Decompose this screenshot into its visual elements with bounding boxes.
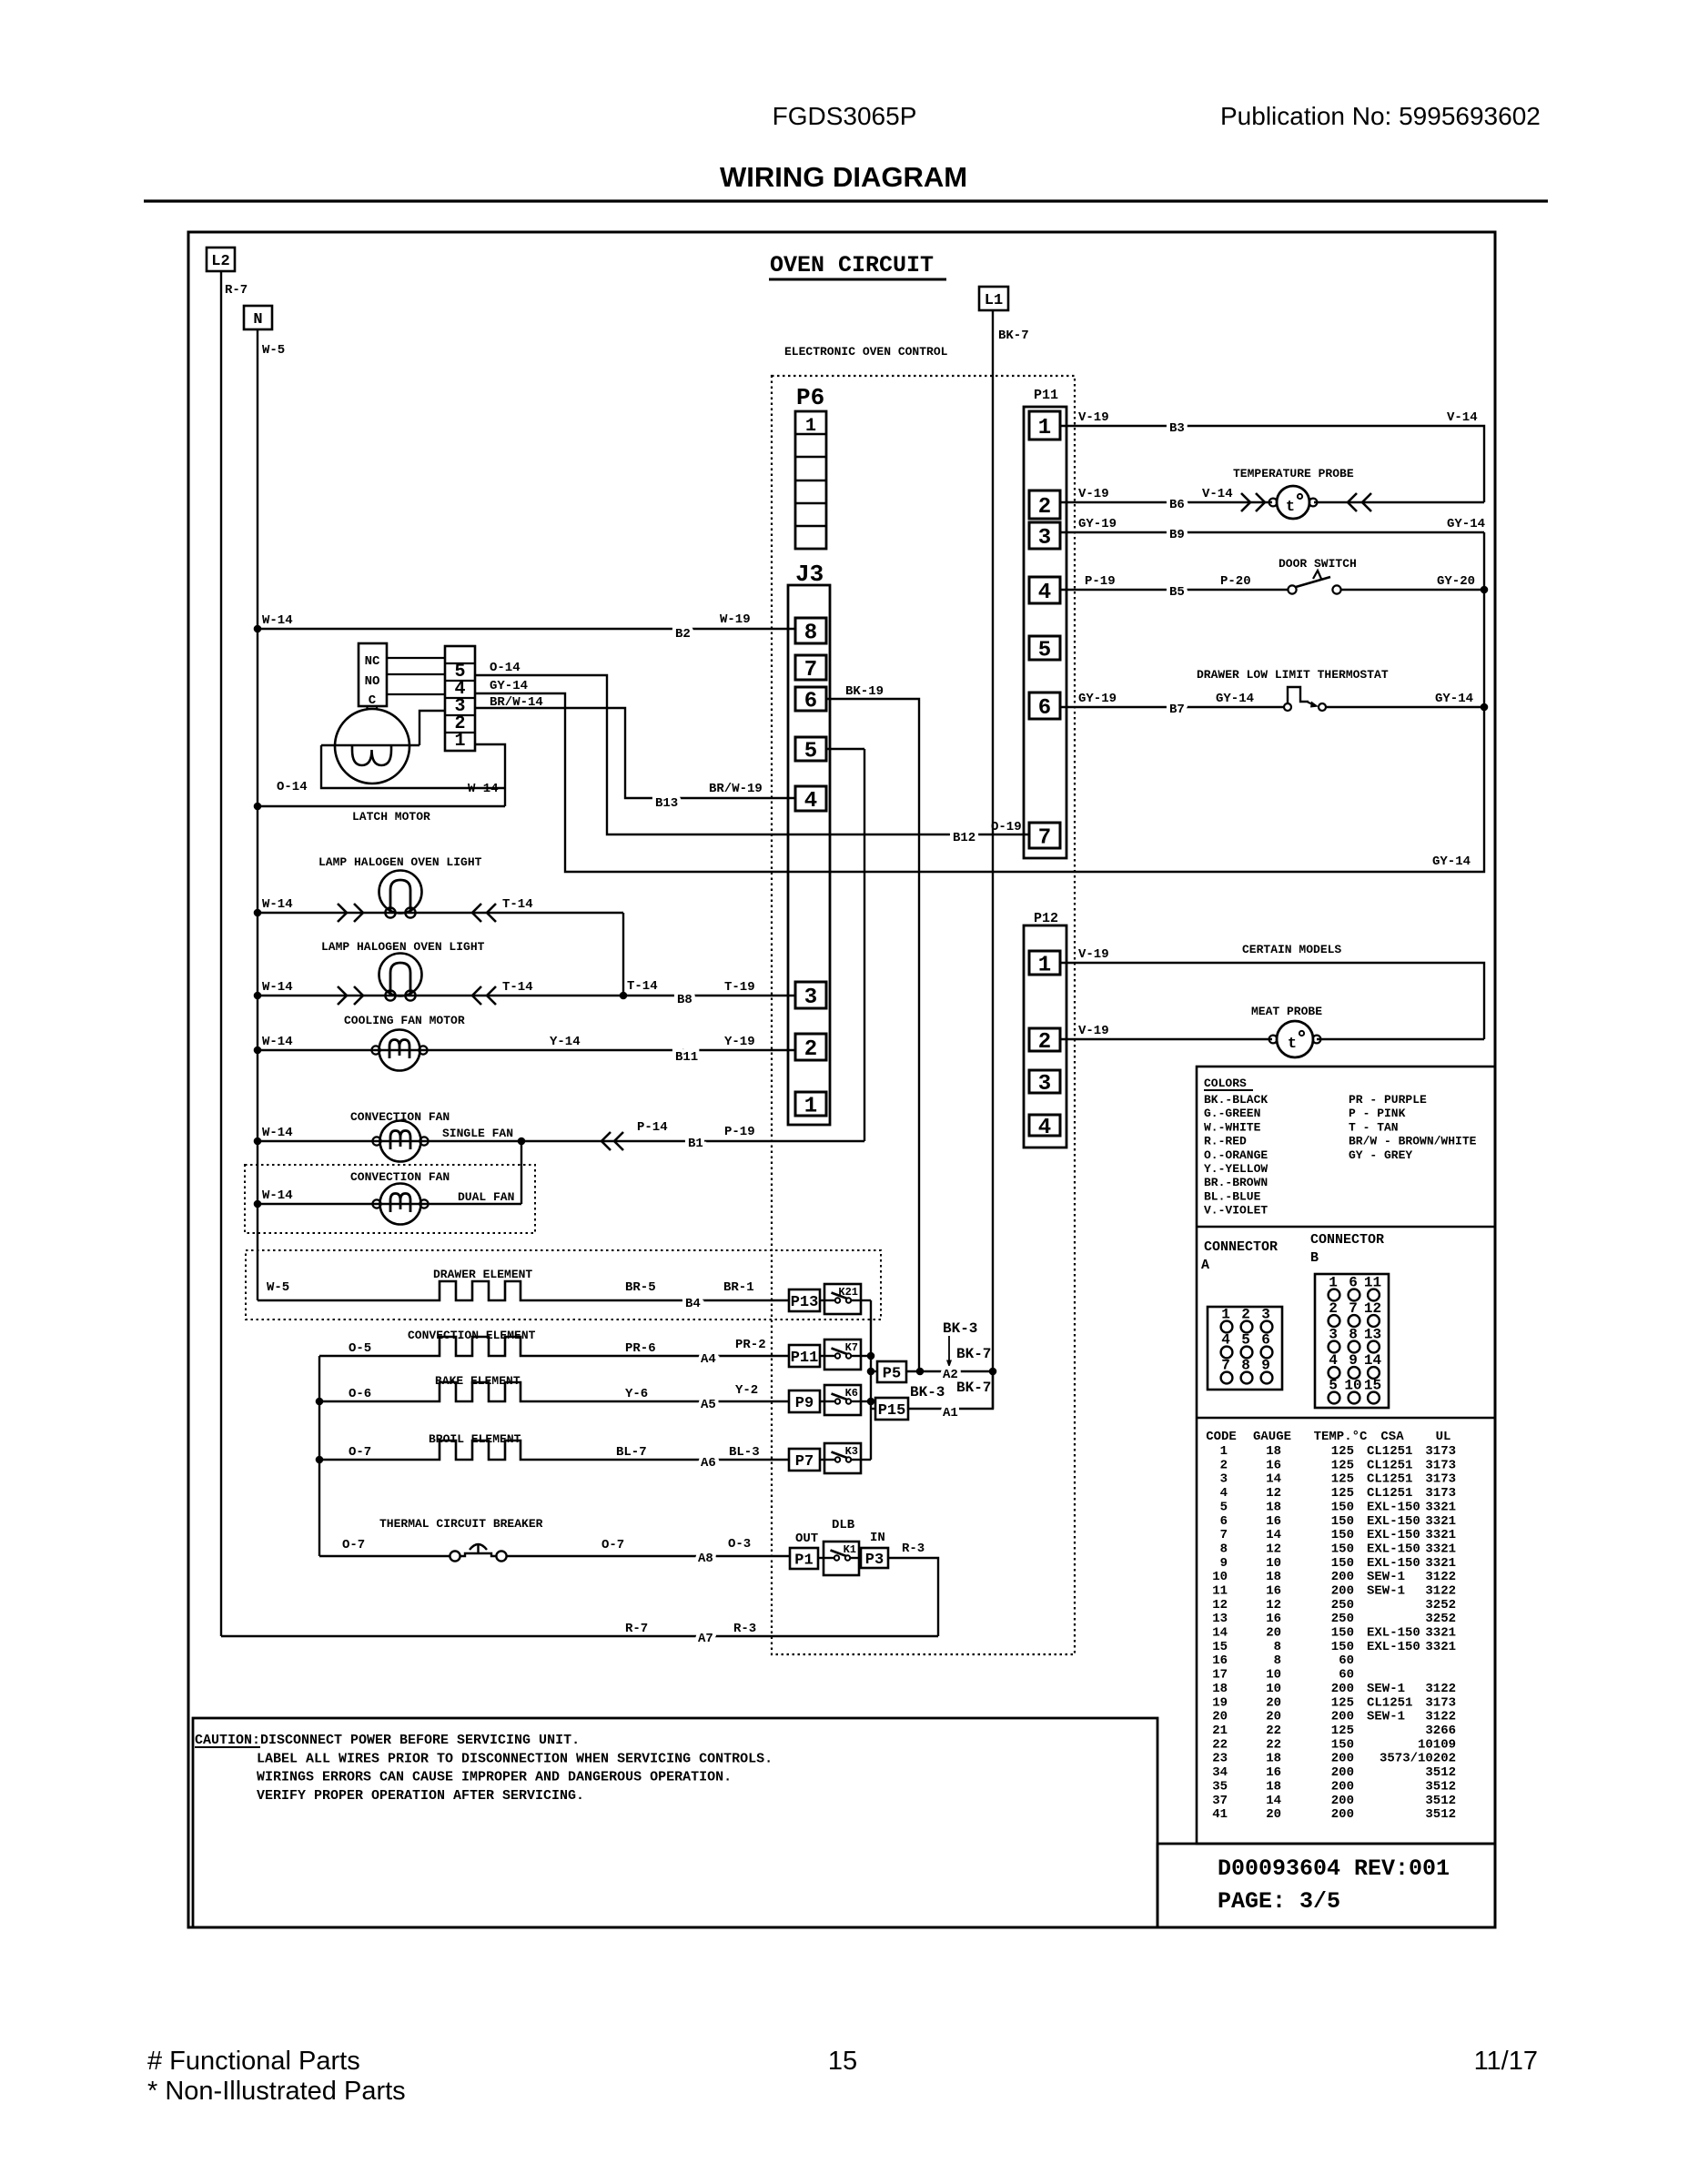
svg-text:NC: NC (365, 654, 380, 669)
svg-text:LABEL ALL WIRES PRIOR TO DISCO: LABEL ALL WIRES PRIOR TO DISCONNECTION W… (257, 1751, 773, 1766)
svg-text:150: 150 (1331, 1500, 1354, 1514)
J3 pin 7 (795, 655, 826, 682)
svg-text:41: 41 (1212, 1807, 1228, 1822)
svg-text:A7: A7 (698, 1632, 713, 1646)
svg-text:16: 16 (1266, 1765, 1281, 1780)
wire J3 pin 5 stub (826, 748, 864, 750)
relay K21 (824, 1284, 861, 1314)
svg-text:BR.-BROWN: BR.-BROWN (1204, 1176, 1268, 1189)
svg-text:Y-14: Y-14 (550, 1035, 581, 1049)
svg-text:PAGE: 3/5: PAGE: 3/5 (1218, 1888, 1340, 1915)
svg-text:8: 8 (804, 622, 817, 646)
svg-text:12: 12 (1266, 1486, 1281, 1501)
title underline (769, 278, 946, 281)
svg-text:14: 14 (1266, 1472, 1281, 1487)
svg-text:B13: B13 (655, 796, 678, 811)
door switch symbol (1288, 571, 1340, 594)
svg-text:O-19: O-19 (991, 820, 1022, 834)
svg-text:CL1251: CL1251 (1367, 1695, 1412, 1710)
drawer low limit thermostat symbol (1284, 687, 1326, 711)
connector P6 (795, 411, 826, 549)
svg-text:16: 16 (1212, 1653, 1228, 1668)
svg-text:t: t (1286, 499, 1295, 516)
svg-text:3512: 3512 (1425, 1807, 1456, 1822)
drawer element dashed box (246, 1250, 881, 1319)
svg-text:4: 4 (804, 789, 817, 814)
relay K6 (824, 1385, 861, 1415)
wire A1 BK-7 (908, 1371, 993, 1409)
latch motor stub left (366, 706, 368, 710)
main border (188, 232, 1495, 1927)
legend wire code table (1206, 1430, 1456, 1822)
svg-text:3173: 3173 (1425, 1444, 1456, 1459)
wire cooling fan / B11 to J3 pin 2 (258, 1049, 795, 1051)
latch relay switch box (359, 643, 387, 706)
svg-text:3512: 3512 (1425, 1779, 1456, 1794)
wire BR/W-14/B13 to J3 pin 4 (475, 708, 795, 798)
junction broil left (316, 1456, 324, 1464)
wire meat probe right (1317, 1038, 1484, 1040)
svg-text:A6: A6 (701, 1456, 716, 1471)
thermal circuit breaker symbol (450, 1544, 506, 1562)
svg-text:EXL-150: EXL-150 (1367, 1626, 1420, 1641)
svg-text:K1: K1 (844, 1543, 856, 1556)
node N (244, 306, 272, 329)
svg-text:EXL-150: EXL-150 (1367, 1528, 1420, 1542)
svg-text:O.-ORANGE: O.-ORANGE (1204, 1148, 1268, 1162)
svg-text:R.-RED: R.-RED (1204, 1135, 1247, 1148)
junction GY right door switch (1481, 586, 1489, 594)
relay K3 (824, 1443, 861, 1473)
svg-text:D00093604 REV:001: D00093604 REV:001 (1218, 1855, 1450, 1882)
svg-text:22: 22 (1212, 1737, 1228, 1752)
wire latch motor chord (321, 744, 419, 746)
svg-text:B11: B11 (675, 1050, 698, 1065)
caution box (193, 1718, 1157, 1927)
svg-text:EXL-150: EXL-150 (1367, 1514, 1420, 1529)
wire breaker right / A8 (507, 1555, 790, 1557)
svg-text:3: 3 (1220, 1472, 1228, 1487)
wire latch motor left loop (321, 745, 505, 788)
svg-text:125: 125 (1331, 1486, 1354, 1501)
svg-text:B5: B5 (1169, 585, 1185, 600)
svg-text:W-5: W-5 (267, 1280, 289, 1295)
svg-text:12: 12 (1266, 1542, 1281, 1557)
svg-text:125: 125 (1331, 1444, 1354, 1459)
wire B3 V-19/V-14 (1060, 426, 1484, 502)
svg-text:SEW-1: SEW-1 (1367, 1710, 1405, 1724)
J3 pin 5 (795, 737, 826, 764)
svg-text:150: 150 (1331, 1528, 1354, 1542)
connector P5 (877, 1361, 906, 1383)
wire P9 to K6 (820, 1400, 824, 1402)
wire O-14/B12 to P11 pin 7 (475, 675, 1029, 834)
svg-text:GY-14: GY-14 (1447, 517, 1485, 531)
temperature probe (1269, 486, 1318, 519)
svg-text:13: 13 (1212, 1612, 1228, 1626)
svg-text:3122: 3122 (1425, 1570, 1456, 1584)
svg-text:R-7: R-7 (625, 1622, 648, 1636)
svg-text:1: 1 (805, 416, 816, 437)
svg-text:20: 20 (1212, 1710, 1228, 1724)
svg-text:3252: 3252 (1425, 1612, 1456, 1626)
junction W-14 cooling fan (254, 1046, 262, 1055)
svg-text:GY-19: GY-19 (1078, 517, 1117, 531)
svg-text:10: 10 (1266, 1682, 1281, 1696)
svg-text:3321: 3321 (1425, 1500, 1456, 1514)
svg-text:18: 18 (1266, 1444, 1281, 1459)
svg-text:2: 2 (804, 1037, 817, 1062)
P11 pin 6 (1029, 693, 1060, 721)
cooling fan motor (371, 1030, 427, 1071)
svg-text:SEW-1: SEW-1 (1367, 1570, 1405, 1584)
svg-text:150: 150 (1331, 1542, 1354, 1557)
svg-text:2: 2 (1038, 1030, 1051, 1055)
svg-text:11/17: 11/17 (1474, 2047, 1538, 2076)
legend divider 1 (1197, 1226, 1495, 1228)
svg-text:10: 10 (1266, 1668, 1281, 1683)
J3 pin 4 (795, 786, 826, 814)
svg-text:B6: B6 (1169, 498, 1185, 512)
svg-text:CL1251: CL1251 (1367, 1486, 1412, 1501)
svg-text:A: A (1201, 1258, 1209, 1273)
lamp halogen oven light 1 (379, 871, 422, 918)
temp probe connector chevrons (1241, 493, 1250, 511)
svg-text:V-19: V-19 (1078, 487, 1109, 501)
svg-text:GY-14: GY-14 (1435, 692, 1473, 706)
svg-text:125: 125 (1331, 1695, 1354, 1710)
wire A2 BK-7 (906, 1370, 993, 1372)
svg-text:W-14: W-14 (262, 897, 293, 912)
legend CONNECTOR A (1201, 1239, 1282, 1390)
connector P12 outline (1024, 925, 1066, 1148)
svg-text:7: 7 (804, 658, 817, 682)
svg-text:CSA: CSA (1380, 1430, 1404, 1444)
svg-text:NO: NO (365, 674, 380, 689)
electronic oven control box (772, 376, 1075, 1654)
wire O-5/O-6/O-7 left riser (318, 1356, 320, 1556)
svg-text:T-14: T-14 (627, 979, 658, 994)
svg-text:T - TAN: T - TAN (1349, 1120, 1399, 1134)
svg-text:COOLING FAN MOTOR: COOLING FAN MOTOR (344, 1014, 465, 1027)
svg-text:CODE: CODE (1206, 1430, 1237, 1444)
wire R-7 vertical from L2 (220, 271, 222, 1636)
legend divider 2 (1197, 1417, 1495, 1420)
P12 pin 2 (1029, 1028, 1060, 1055)
svg-text:W-14: W-14 (262, 980, 293, 995)
svg-text:V-14: V-14 (1202, 487, 1233, 501)
svg-text:R-3: R-3 (733, 1622, 756, 1636)
wire NO to latch connector (387, 673, 445, 675)
svg-text:200: 200 (1331, 1584, 1354, 1599)
latch motor stub right (376, 706, 378, 710)
svg-text:10: 10 (1266, 1556, 1281, 1571)
latch motor connector column (445, 646, 475, 752)
svg-text:7: 7 (1220, 1528, 1228, 1542)
svg-text:CL1251: CL1251 (1367, 1458, 1412, 1472)
svg-text:3321: 3321 (1425, 1626, 1456, 1641)
svg-text:1: 1 (1038, 416, 1051, 440)
drawer element (258, 1281, 789, 1300)
convection element (319, 1337, 789, 1356)
svg-text:BR/W-19: BR/W-19 (709, 782, 763, 796)
svg-text:W-19: W-19 (720, 612, 751, 627)
svg-text:CONNECTOR: CONNECTOR (1204, 1239, 1278, 1255)
svg-text:200: 200 (1331, 1710, 1354, 1724)
J3 pin 3 (795, 982, 826, 1010)
J3 pin 1 (795, 1092, 826, 1119)
node L1 (979, 287, 1008, 310)
svg-text:K3: K3 (845, 1445, 858, 1458)
svg-text:R-7: R-7 (225, 283, 248, 298)
svg-text:BR/W - BROWN/WHITE: BR/W - BROWN/WHITE (1349, 1135, 1477, 1148)
latch motor winding (352, 745, 391, 765)
wire lamp 1 line (258, 912, 623, 914)
P12 pin 1 (1029, 951, 1060, 978)
wire NC to latch connector (387, 657, 445, 659)
wire latch cell1 to W-5 (475, 744, 505, 806)
connector P7 (789, 1449, 820, 1471)
svg-text:Publication No: 5995693602: Publication No: 5995693602 (1220, 102, 1541, 130)
svg-text:3266: 3266 (1425, 1724, 1456, 1738)
svg-text:# Functional Parts: # Functional Parts (147, 2047, 360, 2076)
svg-text:BK-7: BK-7 (956, 1346, 991, 1362)
svg-text:T-19: T-19 (724, 980, 755, 995)
svg-text:B8: B8 (677, 993, 692, 1007)
junction W-14 at N vertical (254, 625, 262, 633)
svg-text:34: 34 (1212, 1765, 1228, 1780)
connector P1 (790, 1548, 818, 1570)
latch motor circle (335, 709, 409, 784)
wire thermostat right GY-14 (1326, 706, 1484, 708)
svg-text:L2: L2 (211, 253, 229, 270)
svg-text:150: 150 (1331, 1626, 1354, 1641)
wire latch cell3 left (419, 711, 445, 745)
svg-text:P1: P1 (794, 1552, 813, 1570)
node L2 (207, 248, 235, 271)
svg-text:21: 21 (1212, 1724, 1228, 1738)
P11 pin 4 (1029, 577, 1060, 605)
P11 pin 7 (1029, 823, 1060, 851)
svg-text:18: 18 (1266, 1779, 1281, 1794)
dual fan dashed box (245, 1165, 535, 1233)
svg-text:P3: P3 (865, 1552, 884, 1569)
P11 pin 2 (1029, 490, 1060, 520)
legend box (1197, 1067, 1495, 1844)
svg-text:A4: A4 (701, 1352, 716, 1367)
svg-text:EXL-150: EXL-150 (1367, 1500, 1420, 1514)
svg-text:W-14: W-14 (262, 1035, 293, 1049)
svg-text:T-14: T-14 (502, 980, 533, 995)
single fan connector chevrons (601, 1132, 611, 1150)
svg-text:3173: 3173 (1425, 1472, 1456, 1487)
svg-text:O-5: O-5 (349, 1341, 371, 1356)
svg-text:W.-WHITE: W.-WHITE (1204, 1120, 1261, 1134)
svg-text:* Non-Illustrated Parts: * Non-Illustrated Parts (147, 2077, 406, 2106)
svg-text:3122: 3122 (1425, 1682, 1456, 1696)
svg-text:GY-14: GY-14 (1216, 692, 1254, 706)
svg-text:IN: IN (870, 1531, 885, 1545)
wire B2 W-14/W-19 to J3 pin 8 (258, 628, 795, 630)
svg-text:3321: 3321 (1425, 1556, 1456, 1571)
svg-text:3321: 3321 (1425, 1542, 1456, 1557)
junction A2 BK-19 (916, 1368, 925, 1376)
svg-text:20: 20 (1266, 1626, 1281, 1641)
svg-text:W-14: W-14 (468, 782, 499, 796)
svg-text:THERMAL CIRCUIT BREAKER: THERMAL CIRCUIT BREAKER (379, 1517, 543, 1531)
svg-text:P5: P5 (883, 1366, 901, 1383)
P11 pin 1 (1029, 411, 1060, 440)
svg-text:B7: B7 (1169, 703, 1185, 717)
svg-text:W-14: W-14 (262, 1188, 293, 1203)
svg-text:BL-7: BL-7 (616, 1445, 647, 1460)
caution text (195, 1733, 773, 1804)
svg-text:P9: P9 (795, 1395, 814, 1412)
junction W-14 dual fan (254, 1200, 262, 1208)
svg-text:GY-14: GY-14 (490, 679, 528, 693)
svg-text:LAMP HALOGEN OVEN LIGHT: LAMP HALOGEN OVEN LIGHT (318, 855, 482, 869)
svg-text:DRAWER ELEMENT: DRAWER ELEMENT (433, 1268, 532, 1281)
junction W-14 single fan (254, 1137, 262, 1146)
wire lamp 2 / B8 to J3 pin 3 (258, 995, 795, 996)
svg-text:DLB: DLB (832, 1518, 855, 1532)
P12 pin 4 (1029, 1115, 1060, 1140)
junction A2 BK-7 (989, 1368, 997, 1376)
wire dual fan (258, 1203, 521, 1205)
svg-text:BK-7: BK-7 (998, 329, 1029, 343)
svg-text:200: 200 (1331, 1765, 1354, 1780)
svg-text:G.-GREEN: G.-GREEN (1204, 1107, 1260, 1120)
svg-text:3122: 3122 (1425, 1710, 1456, 1724)
svg-text:150: 150 (1331, 1737, 1354, 1752)
svg-text:GAUGE: GAUGE (1253, 1430, 1291, 1444)
svg-text:VERIFY PROPER OPERATION AFTER: VERIFY PROPER OPERATION AFTER SERVICING. (257, 1788, 584, 1804)
svg-text:150: 150 (1331, 1640, 1354, 1654)
svg-text:O-7: O-7 (349, 1445, 371, 1460)
connector J3 outline (788, 585, 830, 1125)
wire B7 GY-19/GY-14 (1060, 706, 1284, 708)
svg-text:P11: P11 (1034, 388, 1058, 403)
svg-text:200: 200 (1331, 1752, 1354, 1766)
svg-text:BK-19: BK-19 (845, 684, 884, 699)
svg-text:37: 37 (1212, 1794, 1228, 1808)
svg-text:DRAWER LOW LIMIT THERMOSTAT: DRAWER LOW LIMIT THERMOSTAT (1197, 668, 1389, 682)
svg-text:B2: B2 (675, 627, 691, 642)
svg-text:K6: K6 (845, 1387, 858, 1400)
svg-text:20: 20 (1266, 1695, 1281, 1710)
svg-text:17: 17 (1212, 1668, 1228, 1683)
svg-text:TEMPERATURE PROBE: TEMPERATURE PROBE (1233, 467, 1354, 480)
svg-text:16: 16 (1266, 1458, 1281, 1472)
svg-text:18: 18 (1212, 1682, 1228, 1696)
svg-text:P-14: P-14 (637, 1120, 668, 1135)
svg-text:V-14: V-14 (1447, 410, 1478, 425)
svg-text:EXL-150: EXL-150 (1367, 1556, 1420, 1571)
svg-text:R-3: R-3 (902, 1542, 925, 1556)
svg-text:O-14: O-14 (490, 661, 521, 675)
connector P11 outline (1024, 407, 1066, 858)
svg-text:O-3: O-3 (728, 1537, 751, 1552)
svg-text:CERTAIN MODELS: CERTAIN MODELS (1242, 943, 1341, 956)
junction T-14 lamp2 (620, 992, 628, 1000)
svg-text:V-19: V-19 (1078, 1024, 1109, 1038)
svg-text:18: 18 (1266, 1500, 1281, 1514)
svg-text:P12: P12 (1034, 911, 1058, 926)
svg-text:200: 200 (1331, 1682, 1354, 1696)
svg-text:19: 19 (1212, 1695, 1228, 1710)
svg-text:OUT: OUT (795, 1532, 818, 1546)
svg-text:BR-5: BR-5 (625, 1280, 656, 1295)
svg-text:P6: P6 (796, 384, 824, 411)
svg-text:4: 4 (1220, 1486, 1228, 1501)
svg-text:200: 200 (1331, 1779, 1354, 1794)
J3 pin 2 (795, 1034, 826, 1062)
svg-text:PR-6: PR-6 (625, 1341, 656, 1356)
J3 pin 8 (795, 618, 826, 646)
svg-text:200: 200 (1331, 1570, 1354, 1584)
junction bake left (316, 1398, 324, 1406)
svg-text:20: 20 (1266, 1710, 1281, 1724)
svg-text:5: 5 (1038, 639, 1051, 663)
svg-text:Y.-YELLOW: Y.-YELLOW (1204, 1162, 1268, 1176)
svg-text:14: 14 (1212, 1626, 1228, 1641)
svg-text:1: 1 (1038, 954, 1051, 978)
svg-text:Y-6: Y-6 (625, 1387, 648, 1401)
wire single fan / B1 P-19 (258, 1140, 864, 1142)
svg-text:60: 60 (1339, 1668, 1354, 1683)
relay K1 DLB (824, 1542, 859, 1575)
svg-text:A5: A5 (701, 1398, 716, 1412)
svg-text:3321: 3321 (1425, 1640, 1456, 1654)
wire P12 pin1 V-19 (1060, 963, 1484, 1039)
svg-text:BL.-BLUE: BL.-BLUE (1204, 1189, 1261, 1203)
svg-text:P-19: P-19 (1085, 574, 1116, 589)
svg-text:3: 3 (1038, 1072, 1051, 1097)
wire temp probe right (1314, 501, 1484, 503)
svg-text:BK-3: BK-3 (943, 1320, 977, 1337)
svg-text:18: 18 (1266, 1752, 1281, 1766)
svg-text:Y-19: Y-19 (724, 1035, 755, 1049)
svg-text:BK.-BLACK: BK.-BLACK (1204, 1093, 1268, 1107)
wire bus to P5 (871, 1370, 877, 1372)
svg-text:12: 12 (1266, 1598, 1281, 1613)
svg-text:O-7: O-7 (342, 1538, 365, 1552)
svg-text:14: 14 (1266, 1528, 1281, 1542)
svg-text:PR-2: PR-2 (735, 1338, 766, 1352)
svg-text:BROIL ELEMENT: BROIL ELEMENT (429, 1432, 521, 1446)
svg-text:3: 3 (1038, 526, 1051, 551)
svg-text:TEMP.°C: TEMP.°C (1314, 1430, 1368, 1444)
svg-text:3173: 3173 (1425, 1695, 1456, 1710)
connector P3 (861, 1548, 888, 1569)
svg-text:DUAL FAN: DUAL FAN (458, 1190, 514, 1204)
broil element (319, 1441, 789, 1460)
svg-text:8: 8 (1274, 1653, 1281, 1668)
P12 pin 3 (1029, 1070, 1060, 1097)
svg-text:9: 9 (1220, 1556, 1228, 1571)
svg-text:22: 22 (1266, 1724, 1281, 1738)
svg-text:GY-14: GY-14 (1432, 854, 1471, 869)
svg-text:K7: K7 (845, 1341, 858, 1354)
wire BK-19 J3 pin6 to A2 (826, 699, 919, 1371)
svg-text:5: 5 (1220, 1500, 1228, 1514)
connector P15 (875, 1398, 908, 1420)
svg-text:3173: 3173 (1425, 1458, 1456, 1472)
convection fan single (372, 1121, 428, 1162)
svg-text:CL1251: CL1251 (1367, 1444, 1412, 1459)
connector P11 small (789, 1345, 820, 1367)
svg-text:DOOR SWITCH: DOOR SWITCH (1279, 557, 1357, 571)
